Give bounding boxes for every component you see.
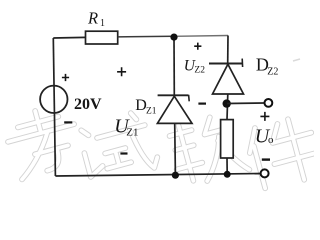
- diode DZ1 triangle: [157, 96, 192, 123]
- minus Uo: [262, 158, 270, 160]
- plus UZ2: [194, 43, 201, 50]
- wire top left segment: [53, 36, 85, 39]
- junction node mid right: [223, 99, 231, 107]
- junction node top: [170, 34, 177, 41]
- svg-text:1: 1: [100, 18, 105, 29]
- resistor R1: [86, 31, 118, 44]
- svg-text:Z2: Z2: [194, 65, 205, 75]
- watermark char ruan: [166, 111, 250, 188]
- svg-text:Z2: Z2: [267, 67, 278, 78]
- wire top right segment: [174, 35, 228, 38]
- resistor RL: [221, 120, 234, 158]
- watermark char jian: [244, 113, 320, 191]
- wire DZ1 top lead: [173, 37, 175, 95]
- wire DZ2 bottom lead: [226, 94, 229, 120]
- plus UZ1: [117, 67, 126, 76]
- wire top mid segment: [118, 35, 174, 38]
- watermark char kao: [2, 102, 84, 180]
- minus UZ1: [120, 152, 127, 154]
- diode DZ1 bar: [158, 94, 189, 96]
- junction node bottom right: [224, 171, 231, 178]
- terminal bottom: [261, 169, 269, 177]
- terminal top: [265, 99, 273, 107]
- plus source: [62, 74, 69, 81]
- source V1 circle: [40, 86, 67, 113]
- diode DZ2 bar tick: [241, 59, 243, 67]
- minus source: [64, 121, 72, 123]
- wire DZ2 top lead: [227, 36, 229, 64]
- wire output top: [227, 102, 265, 105]
- svg-text:R: R: [87, 8, 98, 27]
- svg-text:Z1: Z1: [126, 126, 138, 138]
- watermark smudge top right: [293, 59, 300, 61]
- svg-text:Z1: Z1: [146, 107, 157, 117]
- diode DZ1 bar tick: [188, 95, 191, 102]
- watermark char shi: [78, 109, 160, 184]
- wire left vertical: [53, 38, 55, 176]
- svg-text:20V: 20V: [74, 96, 102, 113]
- diode DZ2 triangle: [213, 64, 244, 94]
- plus Uo: [260, 112, 269, 121]
- minus UZ2: [198, 102, 206, 104]
- svg-text:o: o: [268, 134, 274, 146]
- wire bottom: [55, 174, 260, 177]
- diode DZ2 bar: [209, 63, 242, 65]
- junction node bottom left: [172, 172, 179, 179]
- wire RL bottom lead: [226, 158, 228, 174]
- wire DZ1 bottom lead: [174, 123, 177, 174]
